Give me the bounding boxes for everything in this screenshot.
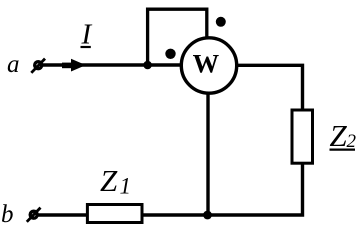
polarity dot of voltage coil — [216, 17, 226, 27]
wire: voltage-coil top bracket — [148, 9, 207, 65]
underline of Z2 — [330, 148, 356, 150]
wire: wattmeter voltage branch down to bottom rail — [206, 94, 209, 215]
underline of I — [81, 46, 91, 48]
current arrow I on wire — [62, 59, 86, 72]
impedance Z1 (box) — [87, 205, 142, 223]
wattmeter W (meter body) — [181, 38, 236, 93]
svg-text:Z: Z — [330, 118, 348, 153]
svg-text:a: a — [7, 51, 20, 78]
svg-text:b: b — [1, 201, 14, 228]
terminal b (clamp symbol) — [27, 208, 41, 222]
wire: Z2 to bottom rail — [143, 163, 303, 215]
svg-text:W: W — [193, 49, 220, 79]
wire: terminal a to wattmeter current coil — [42, 63, 182, 66]
svg-text:1: 1 — [120, 174, 132, 199]
polarity dot of current coil — [165, 49, 175, 59]
svg-text:Z: Z — [100, 163, 118, 198]
svg-text:I: I — [81, 19, 93, 51]
wire: terminal b to Z1 — [37, 213, 87, 216]
impedance Z2 (box) — [292, 110, 313, 163]
node: junction of voltage coil tap on top wire — [143, 61, 152, 70]
wire: wattmeter to Z2 (right branch) — [238, 65, 303, 109]
node: junction on bottom rail — [203, 211, 212, 220]
terminal a (clamp symbol) — [31, 59, 45, 73]
